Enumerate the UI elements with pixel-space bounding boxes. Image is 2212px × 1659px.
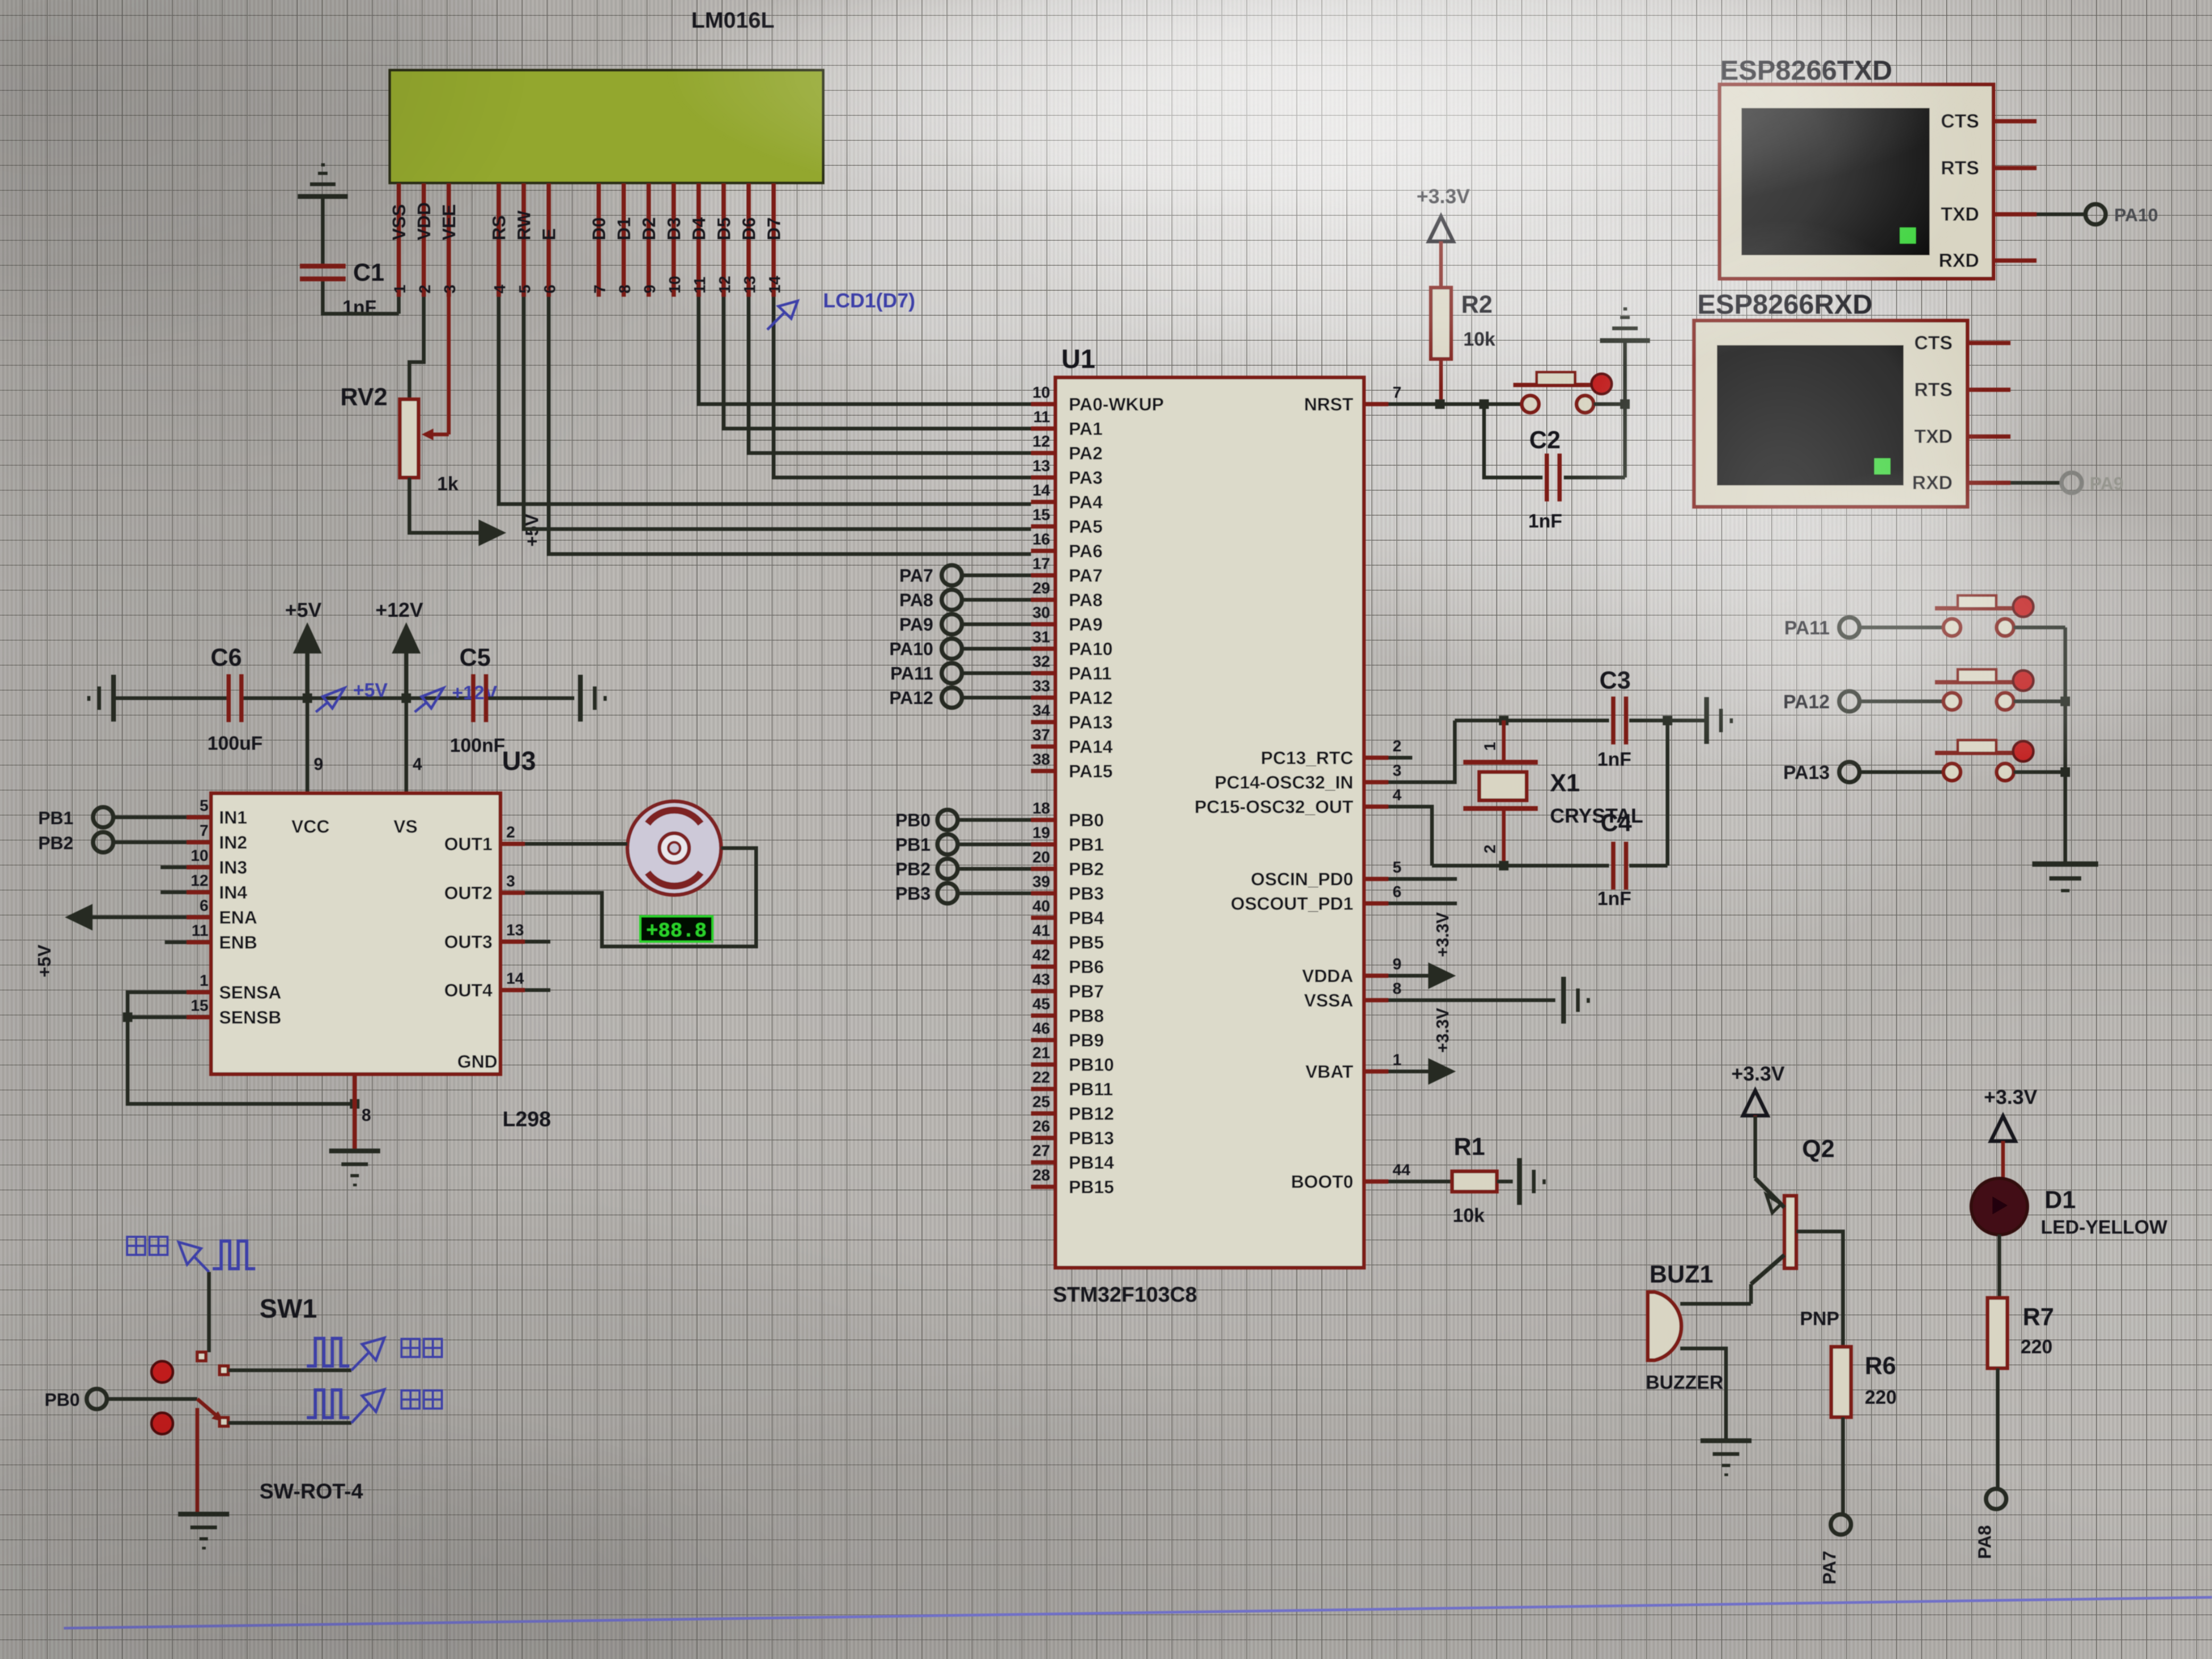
C5 value 100nF [450,734,505,756]
node PA7 terminal [1820,1514,1851,1585]
svg-text:PC13_RTC: PC13_RTC [1261,748,1353,768]
junction crystal pin1 [1499,716,1509,725]
svg-text:1: 1 [1393,1051,1402,1069]
svg-text:VBAT: VBAT [1305,1062,1353,1082]
ESP8266TXD green led [1900,228,1916,244]
wire SW1 to ground [196,1408,199,1512]
SW1 label [259,1294,317,1323]
svg-text:1: 1 [1481,742,1499,751]
svg-text:PA8: PA8 [899,590,933,610]
U1 right pin stubs [1364,404,1388,1182]
junction SENSB [123,1012,132,1022]
wire button to ground node [1594,403,1625,406]
junction R2-NRST [1435,399,1445,409]
svg-text:43: 43 [1033,971,1050,988]
svg-text:31: 31 [1033,629,1050,646]
ground below buzzer [1700,1438,1752,1476]
svg-text:GND: GND [457,1052,498,1072]
svg-text:L298: L298 [502,1108,551,1131]
reset button [1513,372,1601,413]
svg-text:PA11: PA11 [890,664,933,684]
power +5V at ENA [35,904,93,977]
svg-text:28: 28 [1033,1167,1050,1184]
node PA12 terminal [889,688,1031,708]
svg-text:PA5: PA5 [1069,517,1103,537]
potentiometer RV2 [400,399,418,477]
svg-text:5: 5 [516,284,534,294]
svg-text:D5: D5 [714,217,734,240]
probe +5V blue [316,679,388,712]
C2 value 1nF [1528,510,1562,532]
svg-text:18: 18 [1033,800,1050,817]
svg-text:1: 1 [199,972,208,990]
svg-text:30: 30 [1033,604,1050,622]
svg-text:220: 220 [2021,1336,2052,1358]
svg-text:OUT3: OUT3 [444,932,492,952]
svg-text:OUT2: OUT2 [444,883,492,903]
svg-text:10: 10 [191,847,208,865]
svg-text:7: 7 [591,284,609,294]
capacitor C6 [227,674,244,722]
svg-text:2: 2 [1481,844,1499,853]
svg-text:PB0: PB0 [1069,810,1104,831]
capacitor C2 [1545,454,1562,501]
probe high-speed blue [127,1237,209,1272]
svg-text:9: 9 [314,755,323,774]
svg-text:IN1: IN1 [219,808,247,828]
wire buttons to ground vertical [2064,627,2067,861]
R2 label [1461,290,1493,318]
wire IN3 stub [161,866,187,869]
svg-text:19: 19 [1033,824,1050,842]
svg-text:PA7: PA7 [1820,1551,1840,1585]
button PA12 [1783,669,2065,713]
ground above reset button [1600,307,1650,343]
U1 left pin names PA0-PB15 [1069,395,1164,1197]
resistor R7 [1988,1298,2007,1368]
svg-text:41: 41 [1033,922,1050,940]
svg-text:4: 4 [413,755,422,774]
wire ENB stub [165,941,187,944]
svg-text:220: 220 [1865,1386,1897,1408]
wire U1 NRST to reset circuit [1388,403,1521,406]
svg-text:PA7: PA7 [899,566,933,586]
ESP8266RXD label [1697,289,1873,320]
wire R2 to NRST node [1439,359,1443,404]
svg-text:42: 42 [1033,946,1050,964]
power +5V above U3 [285,599,322,698]
svg-text:PA0-WKUP: PA0-WKUP [1069,395,1164,415]
ESP8266RXD screen [1717,345,1904,485]
power +3.3V above D1 [1984,1086,2038,1178]
svg-text:C5: C5 [459,643,491,671]
svg-text:RV2: RV2 [340,383,388,410]
sheet border line [64,1597,2212,1628]
Q2 label [1802,1135,1834,1162]
LCD1 pin numbers 1-14 [391,275,784,294]
svg-text:PA8: PA8 [1069,590,1103,610]
U1 chip body STM32F103C8 [1055,378,1364,1268]
capacitor C5 [471,674,488,722]
svg-text:D7: D7 [764,217,784,240]
svg-text:BOOT0: BOOT0 [1291,1172,1353,1192]
LCD1 label LM016L [691,7,774,32]
button PA11 [1784,596,2065,639]
svg-text:9: 9 [1393,956,1402,973]
svg-text:PB9: PB9 [1069,1030,1104,1051]
power +5V terminal right [479,520,506,546]
svg-text:1k: 1k [437,473,459,495]
svg-text:PA10: PA10 [1069,639,1113,659]
svg-text:NRST: NRST [1304,395,1353,415]
svg-text:PA14: PA14 [1069,737,1113,757]
U1 part number STM32F103C8 [1053,1283,1197,1306]
svg-text:Q2: Q2 [1802,1135,1834,1162]
svg-text:PA15: PA15 [1069,761,1113,782]
junction PA13 button [2060,767,2070,777]
svg-text:PB10: PB10 [1069,1055,1114,1075]
svg-text:8: 8 [616,284,634,294]
svg-text:12: 12 [716,276,734,294]
crystal X1 [1463,760,1538,811]
ground right of C5 [578,675,607,722]
svg-text:PB1: PB1 [1069,835,1104,855]
U1 left pin numbers [1033,384,1051,1184]
node PA7 terminal [899,565,1031,586]
svg-text:+3.3V: +3.3V [1433,1008,1452,1053]
svg-text:X1: X1 [1550,769,1580,797]
wire ground to C1 top [321,198,325,264]
svg-text:C6: C6 [211,643,242,671]
svg-text:1nF: 1nF [1528,510,1562,532]
svg-text:LED-YELLOW: LED-YELLOW [2041,1216,2167,1238]
SW1 contact mid [220,1366,228,1375]
motor body [627,801,721,895]
node PB3 terminal [895,883,1031,904]
U3 right pin numbers [506,824,524,987]
ground right of C3 [1704,697,1733,744]
RV2 value 1k [437,473,459,495]
svg-text:38: 38 [1033,751,1050,768]
svg-text:3: 3 [506,873,515,890]
wire C5 to ground [488,697,574,700]
svg-text:39: 39 [1033,873,1050,891]
ground above C1 [298,163,348,199]
svg-text:PA11: PA11 [1069,664,1112,684]
svg-text:+12V: +12V [375,599,423,622]
node PB1 terminal [895,834,1031,855]
svg-text:14: 14 [766,275,784,294]
svg-text:4: 4 [1393,786,1402,804]
svg-text:VS: VS [393,817,417,837]
svg-text:3: 3 [1393,762,1402,780]
U3 left pin numbers [191,797,208,1015]
probe low-speed blue [351,1389,442,1423]
svg-text:34: 34 [1033,702,1051,719]
node PB0 terminal [895,810,1031,831]
svg-text:BUZ1: BUZ1 [1649,1260,1713,1288]
U3 part number L298 [502,1108,551,1131]
ground at BOOT0 R1 [1517,1158,1546,1205]
svg-text:E: E [539,228,559,240]
wire crystal right vertical [1666,720,1670,866]
svg-text:40: 40 [1033,898,1050,915]
svg-text:PB3: PB3 [1069,884,1104,904]
C2 label [1529,426,1561,454]
U1 right pin numbers [1393,384,1411,1179]
wire C1 bottom to LCD VSS [323,281,399,314]
C5 label [459,643,491,671]
svg-text:PB4: PB4 [1069,908,1104,928]
X1 label [1550,769,1580,797]
BUZ1 type label BUZZER [1646,1371,1723,1393]
svg-text:13: 13 [506,921,524,939]
SW1 contact low [220,1418,228,1426]
wire VSSA to ground [1388,999,1555,1002]
wire RV2 bottom to +5V terminal [409,477,479,533]
capacitor C1 [300,264,346,281]
svg-text:D4: D4 [689,217,709,240]
svg-text:PB14: PB14 [1069,1153,1114,1173]
node PB1 terminal at U3 [38,807,187,828]
svg-text:PA9: PA9 [1069,615,1103,635]
svg-text:IN3: IN3 [219,858,247,878]
resistor R6 [1831,1347,1851,1417]
wire U1 OSCOUT_PD1 stub [1388,902,1457,906]
svg-text:14: 14 [1033,482,1051,499]
LCD1 pin names VSS VDD VEE RS RW E D0-D7 [389,202,784,240]
svg-text:D3: D3 [664,217,684,240]
ground below U3 [329,1149,380,1186]
svg-text:1nF: 1nF [1597,748,1631,770]
wire mid-speed [228,1369,351,1372]
transistor Q2 PNP [1751,1116,1796,1304]
wire VBAT to +3.3V [1388,1070,1428,1074]
svg-text:PA8: PA8 [1975,1525,1995,1559]
svg-text:PC14-OSC32_IN: PC14-OSC32_IN [1214,773,1353,793]
svg-text:PA12: PA12 [1069,688,1113,708]
U3 right pin names OUT1-OUT4 [444,834,492,1001]
U1 label [1061,344,1095,374]
motor speed display [640,916,713,943]
svg-text:PB13: PB13 [1069,1128,1114,1149]
junction +5V rail [303,693,312,703]
R2 value 10k [1463,328,1496,350]
svg-text:PNP: PNP [1800,1308,1839,1329]
svg-text:37: 37 [1033,726,1050,744]
svg-text:15: 15 [1033,506,1050,524]
svg-text:5: 5 [199,797,208,815]
svg-text:SW1: SW1 [259,1294,317,1323]
svg-text:46: 46 [1033,1020,1050,1037]
node PA8 terminal [1975,1489,2006,1559]
svg-text:1nF: 1nF [1597,887,1631,909]
wire crystal top rail [1455,719,1668,723]
buzzer BUZ1 [1648,1292,1681,1360]
crystal X1 pin2 [1481,811,1504,866]
U3 chip body L298 [211,793,500,1074]
ESP8266TXD module body [1720,85,1993,279]
C1 label [353,258,384,286]
SW1 red indicator lower [152,1413,173,1434]
svg-text:+5V: +5V [35,944,55,977]
svg-text:16: 16 [1033,531,1050,548]
svg-text:20: 20 [1033,849,1050,866]
U3 left pin names [219,808,281,1028]
ESP8266TXD screen [1741,108,1930,255]
wire LCD D4 to U1 PA0 [699,297,1031,404]
svg-text:44: 44 [1393,1161,1411,1179]
ground at VSSA [1561,977,1590,1024]
svg-text:6: 6 [1393,883,1402,901]
svg-text:13: 13 [1033,457,1050,475]
capacitor C4 [1611,842,1628,890]
power +3.3V at VBAT [1428,1008,1456,1085]
svg-text:17: 17 [1033,555,1050,573]
U3 left pin stubs [187,817,211,1017]
svg-text:26: 26 [1033,1118,1050,1135]
svg-text:12: 12 [191,872,208,890]
svg-text:C4: C4 [1601,809,1632,836]
svg-text:PA4: PA4 [1069,492,1103,513]
U3 right pin stubs [500,844,525,990]
node PB2 terminal at U3 [38,832,187,853]
+5V rotated label [522,514,542,547]
wire ENA to +5V [93,916,187,919]
svg-text:RW: RW [514,210,534,240]
svg-text:9: 9 [641,284,659,294]
power +3.3V above Q2 [1731,1063,1785,1116]
svg-text:32: 32 [1033,653,1050,671]
SW1 part number SW-ROT-4 [259,1480,364,1503]
node PA9 terminal [899,614,1031,635]
svg-text:U1: U1 [1061,344,1095,374]
node PA10 terminal [2085,204,2158,225]
svg-text:PB1: PB1 [895,835,931,855]
wire U1 PC14 to crystal top rail [1388,720,1455,782]
svg-text:2: 2 [506,824,515,841]
svg-text:PB5: PB5 [1069,933,1104,953]
U1 right pin names [1194,395,1353,1192]
crystal X1 pin1 [1481,720,1504,762]
svg-text:PA1: PA1 [1069,419,1103,439]
wire buzzer top to Q2 collector [1680,1302,1751,1306]
C6 label [211,643,242,671]
svg-text:+3.3V: +3.3V [1433,912,1452,957]
svg-text:PA2: PA2 [1069,443,1103,464]
svg-text:PA13: PA13 [1069,713,1113,733]
svg-text:PB2: PB2 [1069,859,1104,879]
svg-text:2: 2 [1393,738,1402,755]
svg-text:PB2: PB2 [38,833,73,853]
Q2 type label PNP [1800,1308,1839,1329]
svg-text:7: 7 [1393,384,1402,401]
R7 label [2023,1303,2054,1330]
power +3.3V above R2 [1417,186,1470,288]
wire IN4 stub [161,891,187,894]
svg-text:45: 45 [1033,995,1050,1013]
wire ESP8266TXD TXD to PA10 [2037,213,2085,216]
ESP8266TXD pin names [1939,110,1979,271]
svg-text:PB8: PB8 [1069,1006,1104,1026]
wire C2 left branch [1484,404,1543,477]
svg-text:6: 6 [541,284,559,294]
wire VDDA to +3.3V [1388,974,1428,978]
R1 label [1454,1133,1485,1160]
C1 value 1nF [342,296,376,318]
svg-text:ENB: ENB [219,933,257,953]
svg-text:29: 29 [1033,580,1050,597]
R6 label [1865,1352,1896,1379]
wire LCD D7 to U1 PA3 [774,297,1031,477]
svg-text:25: 25 [1033,1093,1050,1111]
wire ESP8266RXD RXD to PA9 [2010,481,2062,485]
svg-text:+5V: +5V [285,599,322,622]
wire R6 to PA7 [1841,1417,1845,1514]
X1 value CRYSTAL [1550,805,1643,827]
svg-text:100uF: 100uF [207,732,263,754]
resistor R2 [1431,288,1451,359]
svg-text:8: 8 [1393,980,1402,998]
svg-text:OUT4: OUT4 [444,981,492,1001]
reset button red indicator [1591,374,1612,394]
svg-text:PB11: PB11 [1069,1079,1113,1100]
LCD1 pin stubs 1-14 [399,183,774,297]
ESP8266RXD green led [1874,458,1890,474]
SW1 contact high [197,1352,206,1361]
wire OUT2 to motor right [525,848,756,946]
svg-text:6: 6 [199,897,208,915]
svg-text:VCC: VCC [291,817,330,837]
node PB2 terminal [895,859,1031,879]
D1 type LED-YELLOW [2041,1216,2167,1238]
SW1 red indicator upper [152,1361,173,1382]
square wave high-speed [213,1241,255,1269]
svg-text:SENSB: SENSB [219,1008,281,1028]
svg-text:D1: D1 [614,217,634,240]
svg-text:12: 12 [1033,433,1050,450]
junction crystal pin2 [1499,861,1509,870]
LCD1 LM016L display body [390,70,823,183]
wire U1 OSCIN_PD0 stub [1388,877,1457,881]
svg-text:15: 15 [191,997,208,1015]
node PA10 terminal [889,639,1031,659]
wire high-speed contact [207,1272,211,1352]
svg-text:5: 5 [1393,859,1402,876]
wire to crystal ground [1668,719,1704,723]
ground below SW1 [178,1512,229,1549]
svg-text:ENA: ENA [219,908,257,928]
wire R7 to PA8 [1996,1368,2000,1489]
svg-text:3: 3 [441,284,459,294]
R7 value 220 [2021,1336,2052,1358]
wire LCD D6 to U1 PA2 [749,297,1031,453]
svg-text:PA9: PA9 [899,615,933,635]
svg-text:PA12: PA12 [889,688,933,708]
svg-text:PA3: PA3 [1069,468,1103,488]
svg-text:1: 1 [391,284,409,294]
svg-text:D6: D6 [739,217,759,240]
wire VS stem pin4 [406,698,422,793]
wire low-speed [228,1421,351,1425]
U1 left pin stubs [1031,404,1055,1187]
R6 value 220 [1865,1386,1897,1408]
svg-text:10: 10 [1033,384,1050,401]
svg-text:VSSA: VSSA [1304,991,1353,1011]
wire buzzer bottom to ground [1680,1348,1726,1438]
C3 value 1nF [1597,748,1631,770]
svg-text:R1: R1 [1454,1133,1485,1160]
